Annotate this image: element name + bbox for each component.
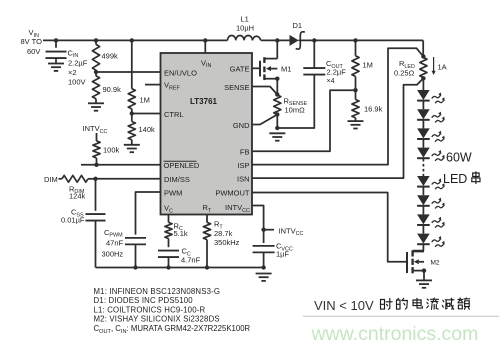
pin ISN xyxy=(237,174,250,183)
label 90.9k xyxy=(103,85,122,94)
transistor M1 xyxy=(252,40,277,80)
label 140k xyxy=(139,125,156,134)
wire LED3-LED4 xyxy=(422,121,424,129)
LED D2 of string xyxy=(417,90,430,101)
svg-text:ISN: ISN xyxy=(237,174,250,183)
node FB divider top junction xyxy=(353,38,357,42)
node VIN-CIN junction xyxy=(54,38,58,42)
svg-text:ISP: ISP xyxy=(237,161,249,170)
svg-text:0.25Ω: 0.25Ω xyxy=(394,68,415,77)
svg-text:FB: FB xyxy=(240,148,250,157)
wire separator line xyxy=(303,315,499,317)
LED D5 light rays xyxy=(432,150,445,161)
wire LED5-LED6 xyxy=(422,159,424,176)
label 16.9k xyxy=(364,105,383,114)
transistor M2 xyxy=(407,250,424,273)
LED D3 light rays xyxy=(432,112,445,123)
wire output return xyxy=(277,74,314,128)
svg-text:LED: LED xyxy=(443,172,467,186)
svg-text:L1: COILTRONICS HC9-100-R: L1: COILTRONICS HC9-100-R xyxy=(94,305,206,314)
wire ground rail xyxy=(96,267,264,269)
pin DIM/SS xyxy=(164,175,190,184)
LED D7 of string xyxy=(417,195,430,206)
svg-text:47nF: 47nF xyxy=(106,238,124,247)
op-amp U1 LT3761 body xyxy=(161,53,253,215)
node RLED top junction xyxy=(421,54,425,58)
wire DIM/SS xyxy=(96,178,162,180)
label 100k xyxy=(103,146,120,155)
resistor 499k xyxy=(92,40,99,72)
resistor RDIM xyxy=(59,175,96,182)
wire PWMOUT xyxy=(252,193,407,262)
node RSENSE top junction xyxy=(275,92,279,96)
svg-text:60V: 60V xyxy=(27,47,40,56)
wire M1 source to RSENSE xyxy=(276,79,278,95)
svg-text:M2: M2 xyxy=(431,260,440,267)
LED D9 of string xyxy=(417,234,430,245)
label 1A arrow xyxy=(432,57,447,75)
wire LED6-LED7 xyxy=(422,187,424,195)
label CIN value xyxy=(68,48,88,86)
svg-text:×4: ×4 xyxy=(327,78,335,85)
LED D8 of string xyxy=(417,214,430,225)
svg-text:1M: 1M xyxy=(363,61,373,70)
LED D4 of string xyxy=(417,128,430,139)
pin GATE xyxy=(230,65,250,74)
pin OPENLED xyxy=(164,161,200,170)
node M2 source junction xyxy=(422,268,426,272)
node VIN-499k junction xyxy=(94,38,98,42)
node OPENLED junction xyxy=(94,163,98,167)
svg-text:×2: ×2 xyxy=(68,68,77,77)
svg-text:2.2µF: 2.2µF xyxy=(68,58,88,67)
label watermark xyxy=(311,323,479,345)
wire FB xyxy=(252,90,356,151)
label INTVCC pullup xyxy=(83,124,108,135)
node RT ground junction xyxy=(205,265,209,269)
wire VC xyxy=(168,215,170,223)
node RSENSE bottom junction xyxy=(275,112,279,116)
svg-text:100k: 100k xyxy=(103,146,120,155)
label RT xyxy=(214,220,240,248)
label LED string xyxy=(443,172,480,186)
pin VREF xyxy=(164,81,181,92)
label RC xyxy=(174,221,188,238)
label VIN derating note xyxy=(314,298,470,313)
svg-text:90.9k: 90.9k xyxy=(103,85,122,94)
wire LED4-LED5 xyxy=(422,140,424,148)
LED D8 light rays xyxy=(432,217,445,228)
svg-text:DIM: DIM xyxy=(44,175,58,184)
resistor 1M fb xyxy=(352,40,359,90)
LED D4 light rays xyxy=(432,131,445,142)
label RSENSE xyxy=(284,96,308,114)
wire INTVCC xyxy=(252,206,264,230)
svg-text:140k: 140k xyxy=(139,125,156,134)
node RSENSE ground junction xyxy=(275,126,279,130)
ground CIN xyxy=(48,64,64,71)
svg-text:10mΩ: 10mΩ xyxy=(285,106,306,115)
svg-text:2.2µF: 2.2µF xyxy=(327,67,347,76)
svg-text:8V TO: 8V TO xyxy=(21,37,43,46)
svg-text:CTRL: CTRL xyxy=(164,110,184,119)
svg-text:LT3761: LT3761 xyxy=(190,97,218,106)
wire RT xyxy=(206,215,208,223)
svg-text:350kHz: 350kHz xyxy=(214,238,240,247)
label INTVCC net xyxy=(279,226,304,237)
LED D3 of string xyxy=(417,109,430,120)
svg-text:VIN < 10V: VIN < 10V xyxy=(314,298,374,313)
label CPWM xyxy=(102,228,124,259)
svg-text:300Hz: 300Hz xyxy=(102,249,124,258)
resistor RT xyxy=(203,222,210,267)
wire L1 to D1 xyxy=(261,39,290,41)
svg-text:124k: 124k xyxy=(69,191,86,200)
svg-text:L1: L1 xyxy=(241,15,249,24)
svg-text:499k: 499k xyxy=(102,52,119,61)
pin VIN xyxy=(201,58,212,69)
pin GND xyxy=(233,121,250,130)
node INTVCC junction xyxy=(261,228,274,232)
label 1M ctrl xyxy=(140,96,150,105)
svg-text:D1: D1 xyxy=(293,21,303,30)
pin PWM xyxy=(164,189,182,198)
LED D6 of string xyxy=(417,176,430,187)
svg-text:EN/UVLO: EN/UVLO xyxy=(164,69,197,78)
label 1M fb xyxy=(363,61,373,70)
svg-text:100V: 100V xyxy=(68,78,86,87)
resistor RLED xyxy=(420,58,427,78)
node CVCC ground junction xyxy=(261,265,265,269)
label COUT xyxy=(326,59,346,85)
capacitor CIN xyxy=(46,40,67,63)
node M1 source junction xyxy=(275,77,279,81)
wire PWM xyxy=(136,192,162,235)
wire GND kelvin xyxy=(252,115,277,125)
svg-text:M2: VISHAY SILICONIX Si2328DS: M2: VISHAY SILICONIX Si2328DS xyxy=(94,315,220,324)
node CPWM ground junction xyxy=(133,265,137,269)
wire LED8-LED9 xyxy=(422,226,424,234)
svg-text:4.7nF: 4.7nF xyxy=(181,255,201,264)
wire VREF stub xyxy=(145,84,161,86)
capacitor CVCC xyxy=(253,230,275,268)
svg-text:1A: 1A xyxy=(438,62,447,71)
resistor RC xyxy=(165,222,172,238)
LED D6 light rays xyxy=(432,178,445,189)
LED D5 of string xyxy=(417,148,430,159)
ground 90.9k xyxy=(88,103,104,110)
svg-text:M1: M1 xyxy=(281,65,291,74)
node COUT junction xyxy=(312,38,316,42)
node VIN input terminal label xyxy=(21,28,43,56)
svg-text:OPENLED: OPENLED xyxy=(164,161,200,170)
svg-text:0.01µF: 0.01µF xyxy=(61,215,85,224)
wire D1 to bend xyxy=(299,40,424,56)
pin EN/UVLO xyxy=(164,69,197,78)
ground RSENSE xyxy=(269,133,285,140)
svg-text:60W: 60W xyxy=(446,151,472,165)
label D1 xyxy=(293,21,303,30)
wire VIN rail xyxy=(43,39,228,41)
svg-text:PWM: PWM xyxy=(164,189,182,198)
wire SENSE xyxy=(252,87,277,95)
wire ISP xyxy=(252,48,423,164)
svg-text:PWMOUT: PWMOUT xyxy=(215,189,250,198)
label CC xyxy=(181,247,201,265)
label CVCC xyxy=(276,242,293,259)
pin VC xyxy=(164,204,173,215)
node EN divider junction xyxy=(94,70,98,74)
pin ISP xyxy=(237,161,249,170)
node DIM/SS junction xyxy=(93,177,97,181)
wire EN/UVLO xyxy=(96,71,161,73)
node RLED bottom junction xyxy=(421,76,425,80)
pin RT xyxy=(203,203,212,214)
svg-text:16.9k: 16.9k xyxy=(364,105,383,114)
resistor 90.9k xyxy=(92,72,99,103)
ground 16.9k xyxy=(348,121,364,128)
diode D1 xyxy=(290,32,305,49)
pin FB xyxy=(240,148,250,157)
node M1 drain junction xyxy=(275,38,279,42)
label component notes xyxy=(94,287,251,335)
svg-text:SENSE: SENSE xyxy=(224,83,249,92)
label CSS xyxy=(61,208,85,225)
label RDIM xyxy=(69,184,86,200)
node VIN-1M junction xyxy=(130,38,134,42)
node VIN pin junction xyxy=(203,38,207,42)
label DIM input xyxy=(44,175,58,184)
label M1 xyxy=(281,65,291,74)
svg-text:GND: GND xyxy=(233,121,250,130)
resistor 1M ctrl xyxy=(128,40,135,113)
svg-text:M1: INFINEON BSC123N08NS3-G: M1: INFINEON BSC123N08NS3-G xyxy=(94,287,221,296)
svg-text:D1: DIODES INC PDS5100: D1: DIODES INC PDS5100 xyxy=(94,296,194,305)
label 499k xyxy=(102,52,119,61)
wire LED7-LED8 xyxy=(422,207,424,215)
label LT3761 xyxy=(190,97,218,106)
pin INTVCC bottom xyxy=(225,203,250,214)
node CC ground junction xyxy=(166,265,170,269)
label M2 xyxy=(431,260,440,267)
svg-text:1µF: 1µF xyxy=(276,250,289,259)
ground 140k xyxy=(124,145,140,152)
wire CTRL xyxy=(132,113,161,115)
label RLED xyxy=(394,59,415,77)
svg-text:10µH: 10µH xyxy=(236,24,254,33)
svg-text:www.cntronics.com: www.cntronics.com xyxy=(311,323,479,345)
wire LED string to M2 drain xyxy=(413,245,424,251)
resistor RSENSE xyxy=(274,95,281,115)
svg-text:1M: 1M xyxy=(140,96,150,105)
wire RSENSE to ground xyxy=(276,115,278,129)
label 60W xyxy=(446,151,472,165)
capacitor COUT xyxy=(303,40,325,74)
LED D2 light rays xyxy=(432,92,445,103)
LED D7 light rays xyxy=(432,198,445,209)
capacitor CSS xyxy=(86,179,106,268)
capacitor CPWM xyxy=(125,238,146,268)
pin SENSE xyxy=(224,83,249,92)
wire LED2-LED3 xyxy=(422,101,424,109)
pin PWMOUT xyxy=(215,189,250,198)
label L1 xyxy=(236,15,254,33)
resistor 100k xyxy=(93,133,100,165)
svg-text:5.1k: 5.1k xyxy=(174,229,188,238)
LED D9 light rays xyxy=(432,236,445,247)
wire OPENLED xyxy=(81,164,161,166)
pin CTRL xyxy=(164,110,184,119)
wire M2 source to ground xyxy=(423,271,425,280)
capacitor CC xyxy=(158,239,179,268)
svg-text:28.7k: 28.7k xyxy=(214,229,233,238)
wire ISN xyxy=(252,78,423,178)
ground CVCC xyxy=(256,274,272,281)
svg-text:GATE: GATE xyxy=(230,65,250,74)
wire RLED to LED string xyxy=(422,78,424,90)
resistor 140k xyxy=(128,114,135,145)
node CTRL divider junction xyxy=(130,111,134,115)
svg-text:DIM/SS: DIM/SS xyxy=(164,175,190,184)
wire VIN pin drop xyxy=(204,40,206,53)
node FB junction xyxy=(353,88,357,92)
resistor 16.9k xyxy=(352,90,359,120)
ground M2 xyxy=(416,280,432,287)
inductor L1 xyxy=(228,36,261,41)
